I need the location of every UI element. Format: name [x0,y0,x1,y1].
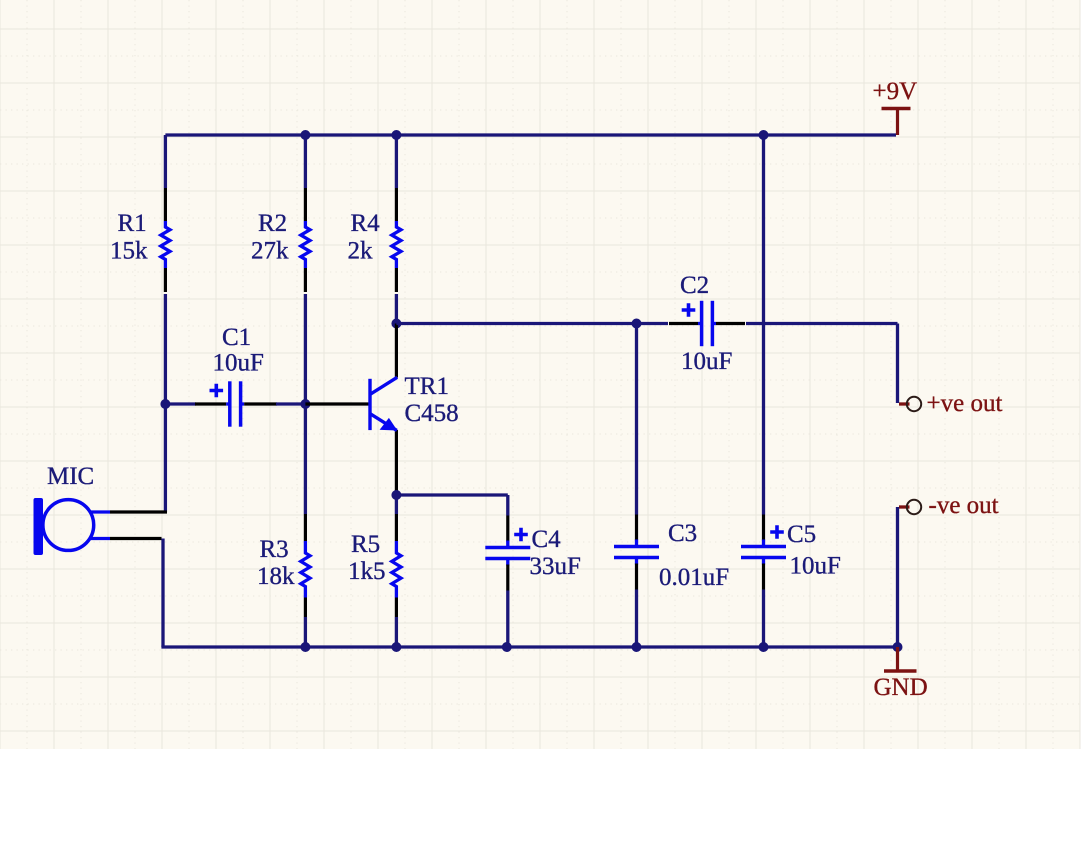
capacitor C2 (10uF polarized) [669,322,698,325]
node R5 rail junction [391,642,401,652]
node C3 rail junction [632,642,642,652]
svg-text:0.01uF: 0.01uF [659,564,729,591]
wire R2 column top [304,135,307,188]
wire -ve out down to rail [896,507,899,647]
wire R4 column top [395,135,398,188]
node C4 rail junction [502,642,512,652]
wire collector output row [396,322,668,325]
MIC pin top (black) [110,510,167,513]
node C5 rail junction [759,642,769,652]
node top rail C5 column [759,130,769,140]
svg-text:TR1: TR1 [405,373,449,400]
svg-text:R3: R3 [260,536,289,563]
svg-text:2k: 2k [348,238,374,265]
svg-text:+ve out: +ve out [927,390,1003,417]
svg-text:R2: R2 [258,210,287,237]
microphone MIC [34,498,44,555]
MIC pin bottom (black) [110,537,162,540]
svg-text:C4: C4 [532,526,562,553]
resistor R2 [304,188,307,221]
svg-text:MIC: MIC [47,463,94,490]
svg-text:GND: GND [874,674,928,701]
svg-text:+9V: +9V [873,78,918,105]
node base/C1-right junction [300,399,310,409]
svg-text:-ve out: -ve out [929,492,999,519]
wire emitter node to C4 [391,490,401,500]
resistor R4 [395,188,398,221]
svg-text:C1: C1 [222,324,251,351]
wire R2 to base node [304,294,307,404]
node C3 top junction [632,319,642,329]
node collector junction [391,319,401,329]
svg-text:C3: C3 [668,520,697,547]
capacitor C3 (0.01uF) [635,512,638,516]
wire MIC lower lead to bottom rail [161,539,164,648]
node top rail R4 [391,130,401,140]
svg-text:10uF: 10uF [790,553,841,580]
wire C2 right to +ve out corner [746,322,898,325]
power +9V symbol [896,109,899,135]
wire R3 to bottom rail [304,617,307,647]
capacitor C4 (33uF polarized) [506,514,509,516]
svg-text:33uF: 33uF [530,553,581,580]
node R3 rail junction [300,642,310,652]
wire R5 to bottom rail [395,617,398,647]
wire C3 column [635,324,638,515]
svg-text:R4: R4 [351,210,381,237]
svg-text:R1: R1 [118,210,147,237]
capacitor C1 (10uF polarized) [164,402,196,405]
svg-text:27k: 27k [251,238,289,265]
node rail right end [893,642,903,652]
resistor R1 [164,188,167,221]
resistor R5 [395,495,398,514]
wire R1 to C1 node and down to MIC [164,294,167,512]
terminal -ve out [899,505,910,508]
capacitor C5 (10uF polarized) [762,512,765,516]
svg-text:10uF: 10uF [213,350,264,377]
transistor TR1 C458 (NPN) [395,324,398,378]
svg-text:R5: R5 [351,531,380,558]
wire +9V top rail [165,133,896,136]
svg-text:15k: 15k [110,238,148,265]
wire left column R1 top [164,135,167,188]
resistor R3 [304,514,307,541]
svg-text:18k: 18k [257,563,295,590]
svg-text:1k5: 1k5 [348,558,386,585]
wire C5 column [762,135,765,514]
svg-text:C5: C5 [787,521,816,548]
node top rail R2 [300,130,310,140]
wire bottom GND rail [161,645,897,648]
ground GND symbol [896,647,899,670]
svg-text:C2: C2 [680,272,709,299]
svg-text:10uF: 10uF [681,348,732,375]
wire R4 to collector node [395,294,398,324]
node C1-left junction [160,399,170,409]
svg-text:C458: C458 [405,400,459,427]
wire base node down to R3 [304,404,307,514]
terminal +ve out [899,402,910,405]
